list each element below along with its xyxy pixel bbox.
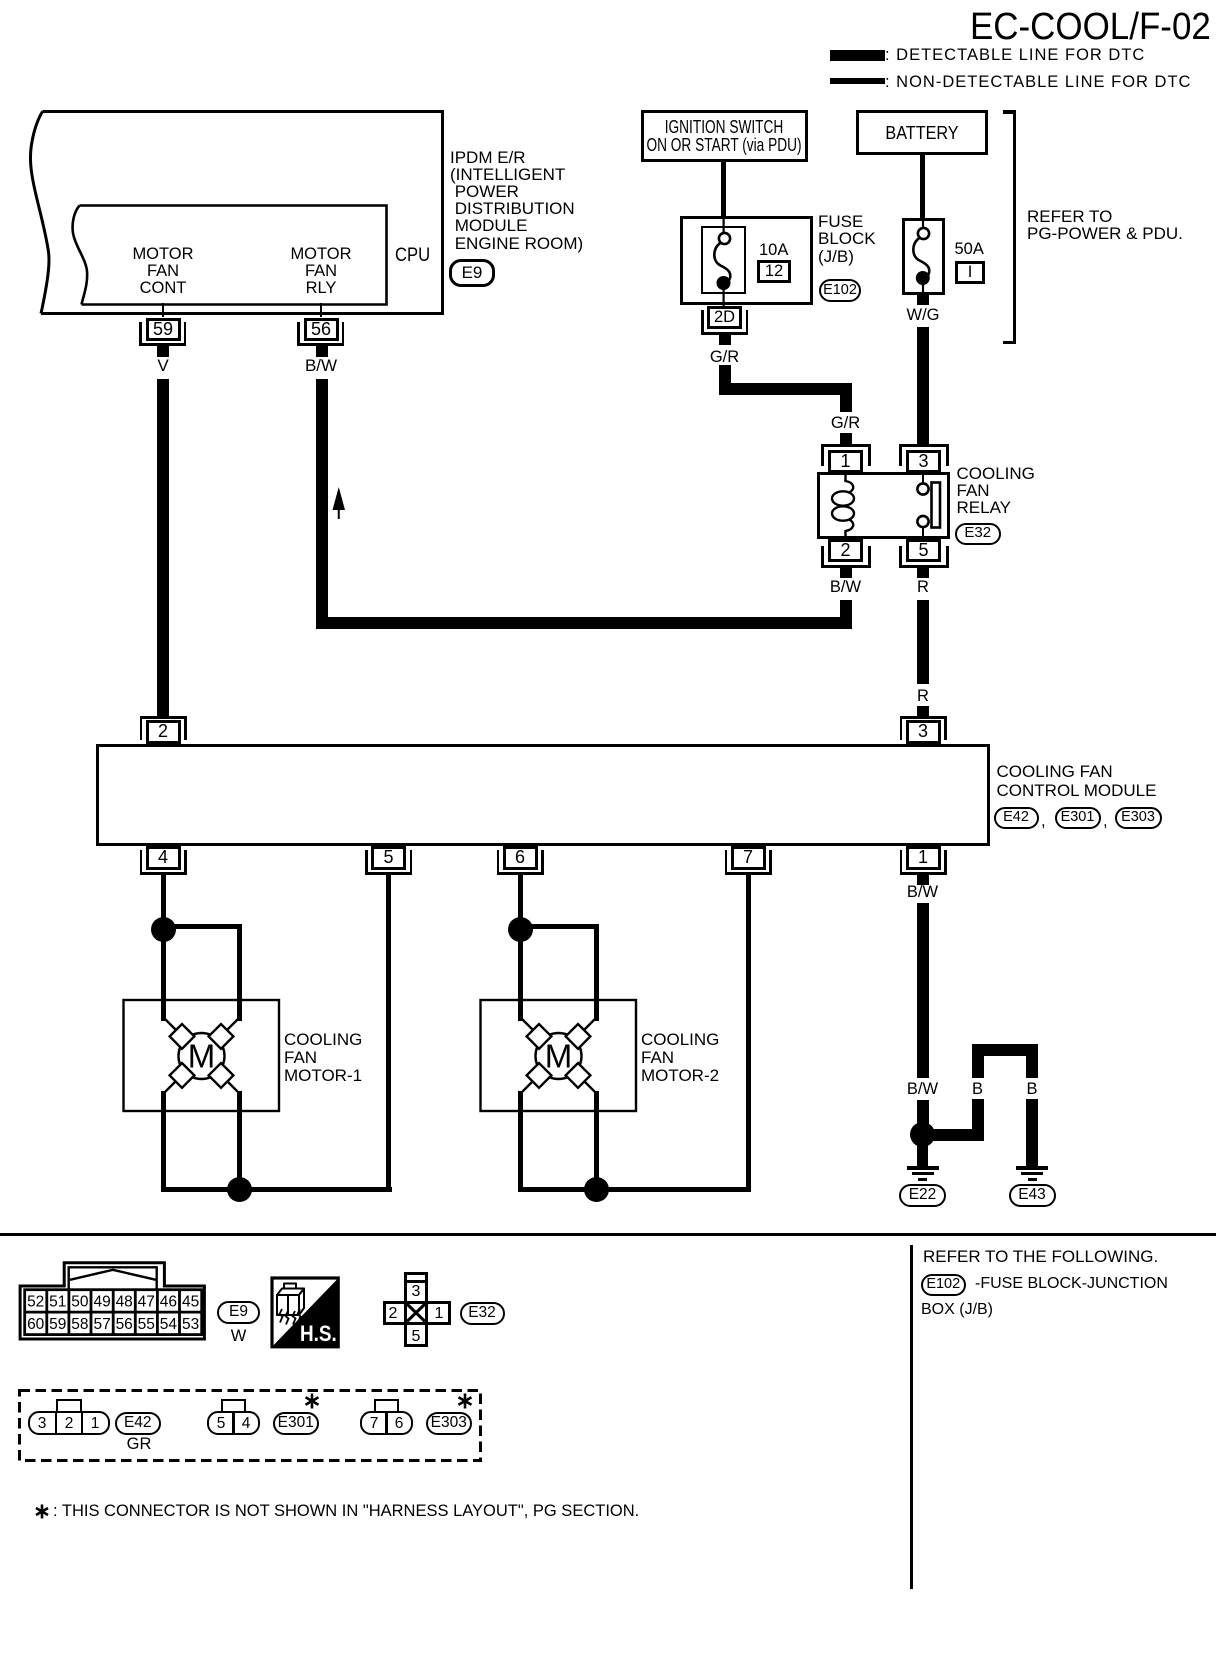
connector E301 tab: [221, 1399, 246, 1414]
wire motor-1 left output: [161, 1091, 166, 1192]
wire ignition switch to fuse (thin): [721, 160, 726, 217]
fuse 50A symbol: [900, 210, 960, 320]
pin lead tick 56: [320, 303, 322, 317]
label V below pin 59: [157, 357, 168, 375]
label MOTOR FAN CONT: [132, 246, 193, 297]
svg-text:58: 58: [71, 1316, 88, 1333]
wire module pin 5 down: [386, 875, 391, 1193]
wire B loop top bar: [972, 1044, 1039, 1056]
ground symbol E22: [907, 1166, 939, 1170]
wire 2D stub to G/R label: [719, 335, 731, 345]
label G/R below 2D: [710, 348, 739, 366]
svg-text:49: 49: [93, 1293, 110, 1310]
module pin 2 (top): [146, 720, 181, 744]
separator line: [0, 1233, 1216, 1236]
svg-text:47: 47: [138, 1293, 155, 1310]
label R below relay pin 5: [917, 578, 929, 596]
label COOLING FAN MOTOR-2: [641, 1031, 719, 1084]
svg-text:53: 53: [182, 1316, 199, 1333]
connector E102 oval: [819, 279, 861, 303]
wire motor-2 bottom horizontal to pin 7 wire: [518, 1187, 751, 1193]
dashed box: [16, 1387, 486, 1465]
legend non-detectable line bar: [830, 78, 885, 84]
wire R stub above module pin 3: [917, 706, 929, 716]
footnote asterisk: [34, 1503, 52, 1521]
ground E43 oval: [1009, 1184, 1056, 1207]
wire B loop left leg lower: [972, 1099, 984, 1141]
label FUSE BLOCK-JUNCTION BOX: [975, 1275, 1168, 1293]
pin lead tick 59: [162, 303, 164, 317]
fuse letter I box: [955, 261, 985, 284]
svg-text:57: 57: [93, 1316, 110, 1333]
label B/W below relay pin 2: [830, 578, 861, 596]
connector E42 tab: [56, 1399, 82, 1414]
svg-text:56: 56: [116, 1316, 133, 1333]
label G/R above relay pin 1: [831, 414, 860, 432]
wire battery to 50A fuse (thin): [920, 153, 925, 219]
svg-text:52: 52: [27, 1293, 44, 1310]
connector E9 front view (stepped outline): [0, 1250, 230, 1360]
legend detectable line text: [885, 46, 1145, 64]
wire motor-1 bottom horizontal to pin 5 wire: [161, 1187, 392, 1193]
svg-text:H.S.: H.S.: [300, 1321, 337, 1346]
box IGNITION SWITCH: [641, 110, 808, 162]
pin 2D (fuse block): [707, 306, 742, 329]
connector E303 face (7|6): [360, 1411, 413, 1435]
wire B/W stub below pin 56: [316, 346, 328, 357]
relay contact symbol: [900, 465, 950, 545]
wire module pin 7 down: [746, 875, 751, 1193]
wire W/G stub below 50A fuse: [917, 295, 929, 305]
label 10A: [759, 241, 788, 259]
wire B/W to junction dot: [917, 1100, 929, 1134]
wire V stub above module pin 2: [157, 706, 169, 716]
junction dot at ground E22: [910, 1122, 935, 1147]
connector E301 oval (module): [1055, 807, 1101, 829]
title EC-COOL/F-02: [970, 6, 1211, 48]
module pin 1 (bottom): [906, 846, 941, 870]
relay pin 3: [906, 450, 941, 473]
wire V stub below pin 59: [157, 346, 169, 357]
svg-text:59: 59: [49, 1316, 66, 1333]
connector E42 oval (bottom): [115, 1412, 162, 1436]
junction dot motor-1 bottom: [227, 1177, 252, 1202]
cooling fan motor-1 symbol: [115, 995, 285, 1120]
svg-text:54: 54: [160, 1316, 178, 1333]
label B/W above ground: [907, 1080, 938, 1098]
label COOLING FAN RELAY: [957, 465, 1035, 516]
junction dot pin6 branch: [508, 917, 533, 942]
wire G/R down to relay pin 1: [840, 383, 852, 412]
relay coil symbol: [820, 465, 880, 545]
wire B/W from IPDM pin 56 down: [316, 379, 328, 629]
label REFER TO THE FOLLOWING.: [923, 1248, 1158, 1266]
fuse block (J/B) outer box: [680, 216, 813, 305]
svg-text:48: 48: [116, 1293, 133, 1310]
label 50A: [955, 240, 984, 258]
junction dot motor-2 bottom: [584, 1177, 609, 1202]
svg-text:51: 51: [49, 1293, 66, 1310]
junction dot pin4 branch: [151, 917, 176, 942]
wire B loop right leg upper: [1026, 1050, 1038, 1078]
bracket REFER TO PG-POWER: [1003, 110, 1016, 114]
cooling fan control module box: [96, 744, 990, 846]
label IPDM E/R block: [450, 149, 583, 252]
label V above module pin 2: [157, 685, 168, 703]
cooling fan relay body: [817, 472, 950, 539]
module pin 7 (bottom): [731, 846, 766, 870]
connector E303 oval (module): [1115, 807, 1162, 829]
relay pin 5: [906, 539, 941, 562]
svg-text:60: 60: [27, 1316, 45, 1333]
wire R relay pin 5 to module pin 3: [917, 600, 929, 684]
wire branch to motor-1 right input: [163, 924, 242, 930]
fuse 10A symbol: [700, 210, 760, 320]
label COOLING FAN CONTROL MODULE: [997, 763, 1157, 800]
label W: [231, 1327, 247, 1345]
wire branch to motor-2 right input: [520, 924, 599, 930]
connector E102 oval (bottom): [921, 1274, 967, 1296]
label REFER TO PG-POWER & PDU.: [1027, 208, 1183, 243]
fuse 50A box: [902, 218, 945, 295]
asterisk E303: [456, 1392, 476, 1412]
wire G/R stub above relay pin 1: [840, 433, 852, 444]
wire V from IPDM to module pin 2: [157, 379, 169, 716]
connector E42 oval (module): [994, 807, 1039, 829]
pin 56 (IPDM): [304, 318, 339, 341]
wire B/W below relay pin 2: [840, 600, 852, 629]
label W/G: [907, 306, 940, 324]
wire branch down at x239: [237, 924, 242, 1021]
wire B loop right leg to ground E43: [1026, 1099, 1038, 1166]
svg-text:55: 55: [138, 1316, 155, 1333]
relay pin 2: [828, 539, 863, 562]
wire W/G down to relay pin 3: [917, 327, 929, 444]
connector E301 face (5|4): [207, 1411, 260, 1435]
label FUSE BLOCK (J/B): [818, 213, 876, 266]
wire motor-1 right output: [237, 1091, 242, 1192]
wire motor-2 left output: [518, 1091, 523, 1192]
wire B/W module pin 1 down: [917, 903, 929, 1078]
svg-text:45: 45: [182, 1293, 199, 1310]
wire branch down at x596: [594, 924, 599, 1021]
legend detectable line bar: [830, 50, 885, 62]
pin 59 (IPDM): [146, 318, 181, 341]
module pin 6 (bottom): [503, 846, 538, 870]
connector E9 oval: [449, 259, 495, 287]
connector E303 oval (bottom): [426, 1412, 473, 1436]
wire stub dot to ground E22: [917, 1144, 928, 1166]
module pin 3 (top): [906, 720, 941, 744]
label GR: [127, 1435, 152, 1453]
wire G/R horizontal run: [719, 383, 853, 395]
connector E9 oval (bottom): [217, 1301, 260, 1324]
connector E32 oval: [955, 523, 1002, 545]
label COOLING FAN MOTOR-1: [284, 1031, 362, 1084]
svg-text:46: 46: [160, 1293, 177, 1310]
cooling fan motor-2 symbol: [472, 995, 642, 1120]
connector E303 tab: [374, 1399, 399, 1414]
wire module pin 6 down to motor-2: [518, 875, 523, 1021]
wire B/W horizontal run to relay pin 2: [316, 617, 853, 629]
footnote text: [53, 1502, 639, 1520]
H.S. view symbol: [269, 1275, 344, 1353]
asterisk E301: [303, 1392, 323, 1412]
box BATTERY: [856, 110, 988, 155]
connector E32 face (cross): [404, 1272, 428, 1347]
svg-text:M: M: [188, 1038, 216, 1075]
label MOTOR FAN RLY: [290, 246, 351, 297]
IPDM E/R outer box (torn left edge, drawn in svg): [0, 0, 470, 330]
fuse 10A inner box: [701, 226, 746, 294]
wire B loop left leg upper: [972, 1050, 984, 1078]
wire B/W stub below module pin 1: [917, 875, 929, 885]
vertical divider (bottom right): [910, 1245, 914, 1589]
wire G/R vertical below label: [719, 365, 731, 395]
module pin 5 (bottom): [371, 846, 406, 870]
svg-text:M: M: [545, 1038, 573, 1075]
label B/W below module pin 1: [907, 883, 938, 901]
label B/W below pin 56: [305, 357, 337, 375]
wire motor-2 right output: [594, 1091, 599, 1192]
arrow up on B/W wire: [326, 483, 356, 523]
CPU inner box (torn left edge): [0, 196, 400, 316]
legend non-detectable line text: [885, 73, 1191, 91]
wire module pin 4 down to motor-1: [161, 875, 166, 1021]
connector E301 oval (bottom): [273, 1412, 320, 1436]
svg-text:50: 50: [71, 1293, 89, 1310]
ground E22 oval: [899, 1184, 946, 1207]
fuse number 12 box: [757, 260, 791, 283]
module pin 4 (bottom): [146, 846, 181, 870]
relay pin 1: [828, 450, 863, 473]
connector E42 face (3|2|1): [28, 1411, 110, 1435]
ground symbol E43: [1016, 1166, 1048, 1170]
wire R stub below relay pin 5: [917, 568, 929, 578]
connector E32 oval (bottom): [460, 1302, 505, 1326]
label CPU: [395, 247, 430, 265]
label R above module pin 3: [917, 687, 929, 705]
connector E9 pin grid: [0, 1288, 230, 1348]
label B right: [1026, 1080, 1037, 1098]
E32 pin numbers: [412, 1283, 421, 1301]
label B left: [972, 1080, 983, 1098]
wire branch dot to B loop: [922, 1129, 984, 1141]
